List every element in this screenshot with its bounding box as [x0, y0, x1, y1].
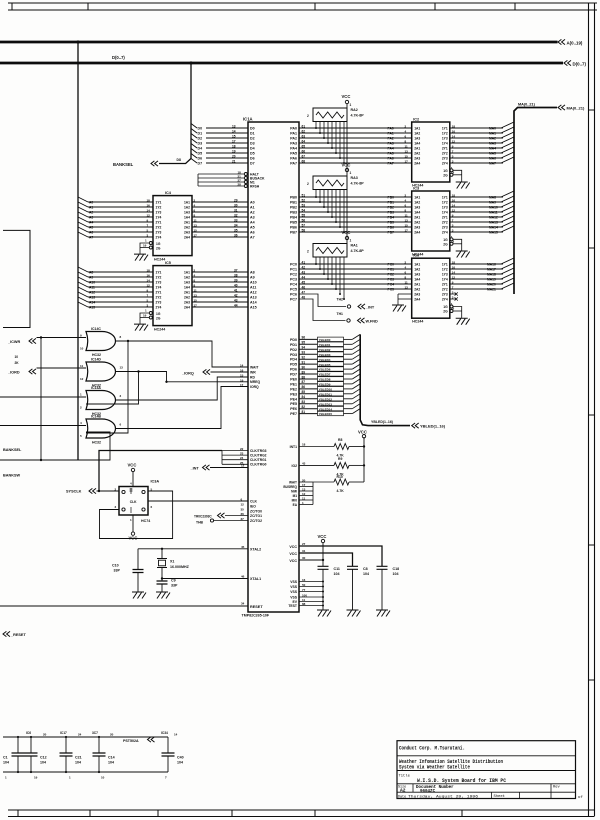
svg-text:PC7: PC7: [290, 298, 297, 302]
svg-text:YBLED13: YBLED13: [319, 402, 333, 406]
svg-text:A8: A8: [250, 271, 255, 275]
svg-text:1: 1: [350, 239, 352, 243]
svg-text:MA4: MA4: [489, 147, 496, 151]
wire VCC1: [299, 546, 382, 566]
svg-text:VCC: VCC: [289, 552, 297, 556]
svg-text:IC3: IC3: [413, 187, 419, 191]
wire IO2 to R9: [299, 464, 334, 466]
svg-text:HC244: HC244: [154, 258, 165, 262]
wire bypass rail top: [3, 736, 168, 738]
frame tick marks bottom: [17, 810, 19, 817]
svg-text:IC3A: IC3A: [151, 480, 160, 484]
svg-text:YBLED11: YBLED11: [319, 392, 333, 396]
svg-text:19: 19: [143, 313, 147, 317]
wires address buffers: [88, 201, 153, 203]
svg-text:YBLED7: YBLED7: [319, 373, 331, 377]
svg-text:12: 12: [302, 492, 306, 496]
wire IC14D out: [116, 372, 248, 382]
svg-text:2Y1: 2Y1: [156, 221, 162, 225]
svg-text:D2: D2: [250, 137, 255, 141]
svg-text:C14: C14: [108, 756, 115, 760]
svg-text:A3: A3: [89, 216, 93, 220]
crystal X1: [161, 549, 163, 559]
svg-text:A11: A11: [250, 286, 256, 290]
svg-text:1A1: 1A1: [414, 127, 420, 131]
svg-text:D(0..7): D(0..7): [112, 55, 125, 60]
svg-text:WAIT: WAIT: [250, 365, 259, 369]
ground C18: [376, 610, 390, 617]
svg-text:D7: D7: [250, 162, 255, 166]
svg-text:2G: 2G: [443, 310, 448, 314]
resistor R8: [334, 444, 349, 450]
svg-text:PC2: PC2: [388, 273, 395, 277]
svg-text:IC5: IC5: [165, 261, 171, 265]
svg-text:HC74: HC74: [141, 519, 150, 523]
svg-text:RA1: RA1: [351, 244, 358, 248]
gate IC14D 74HC32: [86, 362, 116, 381]
svg-text:IC14D: IC14D: [91, 358, 101, 362]
svg-text:A5: A5: [250, 226, 255, 230]
resistor array RA1: [313, 244, 347, 258]
svg-text:2G: 2G: [443, 242, 448, 246]
IC U7 74HC74 flip-flop: [119, 487, 148, 516]
svg-text:D2: D2: [198, 137, 203, 141]
frame tick marks top: [11, 3, 13, 10]
svg-text:1Y4: 1Y4: [156, 216, 162, 220]
svg-text:XTAL2: XTAL2: [250, 547, 261, 551]
svg-text:104: 104: [363, 572, 369, 576]
wire XTAL2: [138, 548, 248, 550]
svg-text:2G: 2G: [156, 317, 161, 321]
resistor array RA3: [313, 176, 347, 190]
svg-text:PC6: PC6: [290, 293, 297, 297]
svg-text:PE1: PE1: [290, 382, 297, 386]
svg-text:HC32: HC32: [92, 441, 101, 445]
svg-text:34: 34: [241, 602, 245, 606]
svg-text:16.000MHZ: 16.000MHZ: [170, 565, 190, 569]
svg-text:21: 21: [232, 159, 236, 163]
svg-text:PA5: PA5: [290, 152, 297, 156]
svg-text:45: 45: [241, 545, 245, 549]
svg-text:IC6: IC6: [413, 254, 419, 258]
svg-text:YBLED9: YBLED9: [319, 383, 331, 387]
svg-text:C9: C9: [171, 579, 176, 583]
svg-text:2A3: 2A3: [414, 226, 420, 230]
svg-text:PC5: PC5: [290, 288, 297, 292]
gate IC14C 74HC32: [86, 332, 116, 351]
svg-text:YBLED5: YBLED5: [319, 363, 331, 367]
svg-text:104: 104: [40, 761, 46, 765]
svg-text:A15: A15: [250, 306, 257, 310]
svg-text:18: 18: [232, 144, 236, 148]
svg-text:PD2: PD2: [290, 348, 297, 352]
svg-text:Thursday, August 29, 1996: Thursday, August 29, 1996: [408, 795, 479, 800]
svg-text:Sheet: Sheet: [494, 794, 505, 799]
svg-text:VCC: VCC: [358, 430, 367, 435]
svg-text:2Y1: 2Y1: [442, 216, 448, 220]
svg-text:2Y2: 2Y2: [442, 152, 448, 156]
svg-text:PC3: PC3: [388, 278, 395, 282]
svg-text:23: 23: [240, 452, 244, 456]
svg-text:2Y2: 2Y2: [156, 226, 162, 230]
svg-text:YBLED3: YBLED3: [319, 353, 331, 357]
svg-text:13: 13: [405, 149, 409, 153]
svg-text:33P: 33P: [114, 569, 121, 573]
svg-text:PE6: PE6: [290, 407, 297, 411]
svg-text:2A4: 2A4: [414, 298, 420, 302]
svg-text:Conduct Corp. M.Tsurutani.: Conduct Corp. M.Tsurutani.: [399, 746, 465, 752]
svg-text:2A1: 2A1: [184, 221, 190, 225]
svg-text:ZC/TO1: ZC/TO1: [250, 514, 262, 518]
svg-text:D1: D1: [250, 132, 255, 136]
svg-text:2Y3: 2Y3: [442, 157, 448, 161]
svg-text:15: 15: [405, 223, 409, 227]
svg-text:2A3: 2A3: [184, 301, 190, 305]
svg-text:PB1: PB1: [388, 201, 395, 205]
svg-text:HC32: HC32: [92, 353, 101, 357]
svg-text:1A3: 1A3: [414, 273, 420, 277]
svg-text:PA6: PA6: [388, 157, 394, 161]
svg-text:1A4: 1A4: [414, 211, 420, 215]
wire _IORQ: [211, 371, 249, 373]
svg-text:D3: D3: [250, 142, 255, 146]
svg-text:PC4: PC4: [290, 283, 297, 287]
capacitor C14: [98, 737, 100, 753]
ground IC6 inputs: [392, 305, 406, 312]
svg-text:MA18: MA18: [487, 273, 496, 277]
svg-text:A7: A7: [250, 236, 255, 240]
svg-text:TMP82C265-10F: TMP82C265-10F: [242, 614, 270, 618]
svg-text:1A1: 1A1: [414, 263, 420, 267]
bus entries D0..D7: [191, 124, 197, 129]
svg-text:22: 22: [240, 447, 244, 451]
svg-text:PE3: PE3: [290, 392, 297, 396]
svg-text:2G: 2G: [156, 247, 161, 251]
wire gate A in2: [86, 372, 139, 405]
wire VCC3: [299, 559, 323, 561]
svg-text:D5: D5: [198, 152, 203, 156]
svg-text:YBLED8: YBLED8: [319, 378, 331, 382]
svg-text:A10: A10: [89, 281, 95, 285]
svg-text:IC4: IC4: [165, 191, 172, 195]
svg-text:MA3: MA3: [489, 142, 496, 146]
svg-text:2A1: 2A1: [414, 147, 420, 151]
svg-text:2Y4: 2Y4: [156, 306, 162, 310]
svg-text:VCC: VCC: [129, 535, 138, 540]
svg-text:RA3: RA3: [351, 176, 358, 180]
svg-text:MA0: MA0: [489, 127, 496, 131]
svg-text:D0: D0: [198, 127, 203, 131]
svg-text:2A1: 2A1: [414, 216, 420, 220]
svg-text:YBLED10: YBLED10: [319, 388, 333, 392]
wires PC0..PC5 to IC6: [299, 263, 412, 265]
svg-text:TH1: TH1: [337, 312, 344, 316]
svg-text:104: 104: [108, 761, 114, 765]
svg-text:IO2: IO2: [292, 464, 298, 468]
svg-text:19: 19: [232, 149, 236, 153]
svg-text:2Y1: 2Y1: [442, 147, 448, 151]
svg-text:1Y1: 1Y1: [442, 263, 448, 267]
svg-text:TH2: TH2: [337, 298, 344, 302]
svg-text:VCC: VCC: [342, 230, 351, 235]
svg-text:MA21: MA21: [487, 288, 496, 292]
svg-text:1Y2: 1Y2: [442, 268, 448, 272]
svg-text:1Y2: 1Y2: [156, 206, 162, 210]
wires PD/PE to YBLED bus: [299, 338, 318, 340]
svg-text:15: 15: [232, 134, 236, 138]
pins CLK/TRG0..3: [222, 450, 248, 452]
svg-text:HC244: HC244: [412, 320, 423, 324]
svg-text:9604ZC: 9604ZC: [420, 790, 436, 794]
svg-text:24: 24: [78, 733, 82, 737]
svg-text:1A1: 1A1: [184, 201, 190, 205]
svg-text:1Y4: 1Y4: [442, 142, 448, 146]
svg-text:IC34: IC34: [161, 731, 168, 735]
svg-text:CLK/TRG3: CLK/TRG3: [250, 449, 267, 453]
svg-text:13: 13: [405, 285, 409, 289]
svg-text:4.7K: 4.7K: [337, 489, 345, 493]
svg-text:A6: A6: [89, 231, 93, 235]
svg-text:PC0: PC0: [290, 263, 297, 267]
svg-text:12: 12: [241, 503, 245, 507]
title block frame: [397, 741, 576, 799]
svg-text:YBLED14: YBLED14: [319, 407, 333, 411]
svg-text:A9: A9: [89, 276, 93, 280]
svg-text:A3: A3: [250, 216, 255, 220]
svg-text:A6: A6: [250, 231, 255, 235]
svg-text:1A4: 1A4: [184, 216, 190, 220]
svg-text:PD3: PD3: [290, 353, 297, 357]
capacitor C11: [318, 566, 329, 569]
ground C8: [347, 610, 361, 617]
svg-text:_INT: _INT: [190, 467, 200, 471]
svg-text:2Y3: 2Y3: [156, 301, 162, 305]
flag _RESET: [3, 631, 10, 636]
svg-text:1A3: 1A3: [414, 206, 420, 210]
svg-text:M1: M1: [293, 494, 298, 498]
svg-text:PB7: PB7: [388, 231, 395, 235]
svg-text:IC17: IC17: [60, 731, 67, 735]
svg-text:PA3: PA3: [290, 142, 297, 146]
svg-text:CLK/TRG1: CLK/TRG1: [250, 458, 267, 462]
svg-text:D6: D6: [250, 157, 255, 161]
svg-text:16: 16: [302, 578, 306, 582]
svg-text:PB2: PB2: [388, 206, 395, 210]
svg-text:VCC: VCC: [342, 94, 351, 99]
svg-text:77: 77: [302, 588, 306, 592]
svg-text:1Y3: 1Y3: [156, 281, 162, 285]
svg-text:PC1: PC1: [290, 268, 297, 272]
flag W.FND: [358, 318, 365, 323]
svg-text:YBLED1: YBLED1: [319, 343, 331, 347]
svg-text:1Y2: 1Y2: [156, 276, 162, 280]
svg-text:MA17: MA17: [487, 268, 496, 272]
svg-text:104: 104: [177, 761, 183, 765]
svg-text:VCC: VCC: [318, 534, 327, 539]
svg-text:_ICWR: _ICWR: [7, 340, 20, 344]
wire VCC chain: [346, 104, 348, 244]
svg-text:VCC: VCC: [289, 559, 297, 563]
svg-text:1Y4: 1Y4: [442, 211, 448, 215]
wire VCC pullup rail: [363, 437, 365, 482]
svg-text:IC14C: IC14C: [91, 327, 101, 331]
svg-text:104: 104: [3, 761, 9, 765]
svg-text:2Y4: 2Y4: [156, 236, 162, 240]
wire address bus vertical: [77, 42, 79, 460]
wire INT1 to R8: [299, 446, 334, 448]
svg-text:43: 43: [302, 461, 306, 465]
svg-text:PD0: PD0: [290, 338, 297, 342]
gate IC14B 74HC32: [86, 419, 116, 438]
svg-text:MA(0..21): MA(0..21): [567, 106, 585, 111]
wires PA0..PA7 to IC2: [299, 127, 412, 129]
svg-text:1Y2: 1Y2: [442, 201, 448, 205]
svg-text:20: 20: [232, 154, 236, 158]
capacitor C10: [133, 570, 144, 573]
wire _ICWR: [37, 337, 87, 339]
IC U2 74HC244: [412, 122, 450, 182]
svg-text:13: 13: [302, 487, 306, 491]
svg-text:12: 12: [241, 464, 245, 468]
IC U1 TMP82C265 body: [248, 122, 299, 612]
svg-text:A9: A9: [250, 276, 255, 280]
svg-text:MA8: MA8: [489, 196, 496, 200]
svg-text:Title: Title: [399, 773, 411, 778]
svg-text:MA15: MA15: [489, 231, 498, 235]
svg-text:YBLED15: YBLED15: [319, 412, 333, 416]
svg-text:of: of: [578, 795, 583, 800]
svg-text:17: 17: [405, 159, 409, 163]
svg-text:2A2: 2A2: [414, 221, 420, 225]
wires PB0..PB7 to IC3: [299, 196, 412, 198]
svg-text:C12: C12: [40, 756, 47, 760]
svg-text:A12: A12: [89, 291, 95, 295]
svg-text:A0: A0: [89, 201, 93, 205]
wires IC6 unused inputs to ground: [398, 293, 412, 295]
svg-text:PD6: PD6: [290, 368, 297, 372]
ground C10: [132, 592, 146, 599]
svg-text:PB5: PB5: [388, 221, 395, 225]
frame border top: [8, 2, 597, 4]
svg-text:PE4: PE4: [290, 397, 297, 401]
IC U3 74HC244: [412, 191, 450, 251]
svg-text:PA3: PA3: [388, 142, 394, 146]
bus MA vertical: [514, 108, 557, 295]
svg-text:D(0..7): D(0..7): [573, 62, 587, 67]
wire PC6 to _INT: [299, 294, 346, 307]
svg-text:PB3: PB3: [290, 211, 297, 215]
bus entries A0..A15: [78, 197, 88, 202]
svg-text:IORQ: IORQ: [250, 385, 259, 389]
svg-text:2: 2: [307, 182, 309, 186]
svg-text:20: 20: [302, 478, 306, 482]
wire BANKSEL: [159, 159, 191, 164]
svg-text:PA0: PA0: [388, 127, 394, 131]
svg-text:2G: 2G: [443, 173, 448, 177]
svg-text:1G: 1G: [443, 169, 448, 173]
svg-text:_IORQ: _IORQ: [181, 371, 194, 375]
svg-text:14: 14: [174, 733, 178, 737]
svg-text:Rev: Rev: [553, 786, 561, 790]
IC U5 74HC244: [153, 266, 192, 326]
pins BUSREQ group: [299, 481, 313, 483]
svg-text:MA19: MA19: [487, 278, 496, 282]
svg-text:A1: A1: [89, 206, 93, 210]
svg-text:C11: C11: [334, 567, 340, 571]
svg-text:PA7: PA7: [290, 162, 297, 166]
svg-text:YBLED12: YBLED12: [319, 397, 333, 401]
svg-text:11: 11: [405, 213, 409, 217]
svg-text:D4: D4: [198, 147, 203, 151]
svg-text:RD: RD: [250, 375, 255, 379]
svg-text:A8: A8: [89, 271, 93, 275]
wire C9 gnd: [161, 584, 163, 592]
svg-text:2Y4: 2Y4: [442, 162, 448, 166]
svg-text:W.I.S.D. System Board for IBM: W.I.S.D. System Board for IBM PC: [417, 778, 506, 784]
svg-text:1A2: 1A2: [184, 276, 190, 280]
svg-text:D4: D4: [250, 147, 255, 151]
capacitor C21: [65, 737, 67, 753]
svg-text:1Y3: 1Y3: [156, 211, 162, 215]
svg-text:28: 28: [238, 183, 242, 187]
svg-text:R8: R8: [338, 438, 342, 442]
svg-text:4.7K-8P: 4.7K-8P: [351, 182, 365, 186]
svg-text:1Y4: 1Y4: [442, 278, 448, 282]
svg-text:20: 20: [110, 733, 114, 737]
svg-text:PC3: PC3: [290, 278, 297, 282]
wire PC7 to W.FND: [299, 299, 346, 321]
flag A(0..19): [558, 39, 565, 44]
svg-text:MA5: MA5: [489, 152, 496, 156]
svg-text:VCC: VCC: [128, 463, 137, 468]
svg-text:MA2: MA2: [489, 137, 496, 141]
svg-text:PA1: PA1: [388, 132, 394, 136]
svg-text:A0: A0: [250, 201, 255, 205]
svg-text:1G: 1G: [443, 238, 448, 242]
svg-text:1Y3: 1Y3: [442, 137, 448, 141]
svg-text:YBLED(1..16): YBLED(1..16): [371, 420, 393, 424]
svg-text:PA0: PA0: [290, 127, 297, 131]
svg-text:14: 14: [232, 129, 236, 133]
svg-text:CLK: CLK: [130, 500, 137, 504]
svg-text:100: 100: [302, 593, 307, 597]
resistor R10: [334, 479, 349, 485]
svg-text:IC6: IC6: [26, 731, 31, 735]
svg-text:MREQ: MREQ: [250, 380, 261, 384]
svg-text:MA6: MA6: [489, 157, 496, 161]
svg-text:A2: A2: [400, 788, 406, 794]
IC U4 74HC244: [153, 196, 192, 256]
wire C18 to ground: [381, 569, 383, 610]
svg-text:2Y4: 2Y4: [442, 231, 448, 235]
svg-text:2Y2: 2Y2: [442, 288, 448, 292]
svg-text:INT1: INT1: [290, 445, 297, 449]
svg-text:MA(0..21): MA(0..21): [518, 102, 536, 106]
wire XTAL1: [162, 578, 248, 580]
svg-text:1Y1: 1Y1: [442, 127, 448, 131]
wire control vertical: [40, 338, 42, 461]
svg-text:YBLED0: YBLED0: [319, 338, 331, 342]
svg-text:PB7: PB7: [290, 231, 297, 235]
svg-text:PE0: PE0: [290, 378, 297, 382]
svg-text:1Y3: 1Y3: [442, 206, 448, 210]
svg-text:1A1: 1A1: [414, 196, 420, 200]
svg-text:THB: THB: [196, 520, 204, 524]
flag MA(0..21): [558, 105, 565, 110]
svg-text:2K: 2K: [15, 361, 20, 365]
svg-text:33P: 33P: [171, 583, 178, 587]
svg-text:TEST: TEST: [288, 604, 298, 608]
